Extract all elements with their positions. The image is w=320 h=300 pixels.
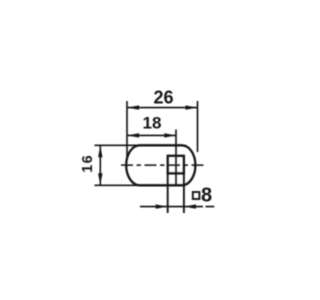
dim 26 right extension line [197, 101, 199, 152]
dim 18 right arrow [164, 133, 176, 137]
dim square-8 line dashed tail [191, 206, 214, 208]
part outline (obround body) [126, 145, 195, 185]
svg-text:26: 26 [153, 87, 173, 107]
dim 16 bottom extension line [95, 184, 142, 186]
dim 26 line [127, 107, 198, 109]
svg-text:8: 8 [201, 184, 212, 206]
svg-text:16: 16 [80, 154, 96, 173]
square hole [168, 156, 184, 174]
square hole right edge projection line [183, 174, 185, 214]
dim 26 right arrow [186, 105, 198, 109]
dim square-8 right outside arrow (points left at right projection) [184, 204, 196, 208]
dim 16 bottom arrow [98, 173, 102, 185]
dim square-8 line [140, 206, 189, 208]
dim 26 left arrow [127, 105, 139, 109]
dim 26 left extension line [126, 101, 128, 157]
dim 16 top extension line [95, 144, 142, 146]
dim 18 line [127, 134, 176, 136]
dim square-8 left outside arrow (points right at left projection) [156, 204, 168, 208]
dim square-8 square symbol [193, 192, 200, 199]
dim 16 top arrow [98, 146, 102, 158]
svg-text:18: 18 [143, 114, 162, 133]
vertical centerline through square (also ext. line of dim 18) [175, 130, 177, 186]
square hole left edge projection line [167, 174, 169, 214]
horizontal centerline [121, 164, 206, 166]
dim 18 left arrow [127, 133, 139, 137]
dim 16 line (vertical) [99, 145, 101, 185]
